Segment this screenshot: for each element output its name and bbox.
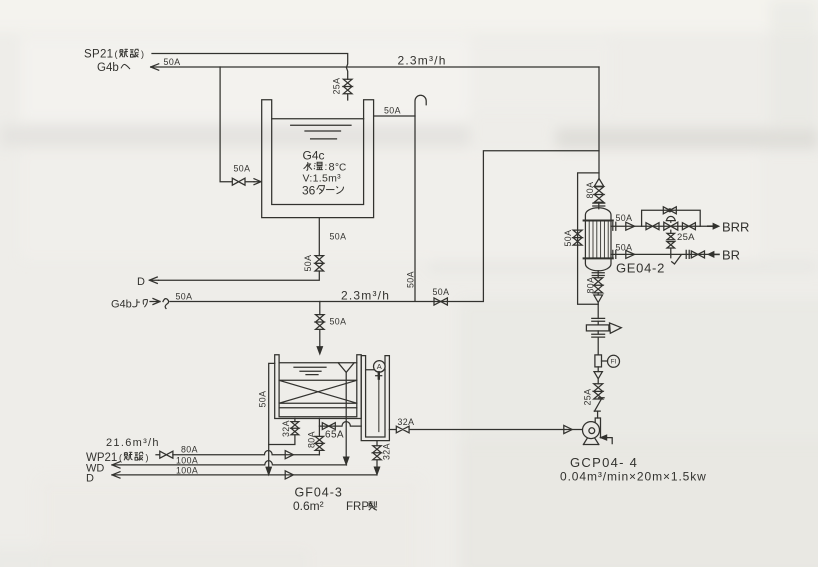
svg-text:32A: 32A <box>382 443 392 460</box>
svg-text:50A: 50A <box>330 232 347 242</box>
svg-text:36: 36 <box>302 184 316 198</box>
svg-text:(: ( <box>115 49 118 59</box>
svg-text:BRR: BRR <box>722 220 749 235</box>
svg-text:50A: 50A <box>616 242 633 252</box>
svg-text:50A: 50A <box>433 287 450 297</box>
svg-text:32A: 32A <box>398 417 415 427</box>
svg-text:SP21: SP21 <box>84 49 113 61</box>
svg-text:A: A <box>377 362 382 371</box>
svg-text:100A: 100A <box>176 466 198 476</box>
svg-text:50A: 50A <box>616 213 633 223</box>
svg-text:21.6m³/h: 21.6m³/h <box>106 437 160 449</box>
svg-text:50A: 50A <box>303 255 313 272</box>
svg-text:D: D <box>137 276 145 288</box>
svg-text:D: D <box>86 473 94 485</box>
svg-text:G4b: G4b <box>111 299 132 311</box>
svg-text:65A: 65A <box>325 430 344 441</box>
svg-text:50A: 50A <box>234 164 251 174</box>
svg-text:2.3m³/h: 2.3m³/h <box>398 54 447 68</box>
svg-text:80A: 80A <box>307 431 317 448</box>
svg-text:G4b: G4b <box>97 62 119 74</box>
svg-text:50A: 50A <box>563 230 573 247</box>
svg-text:50A: 50A <box>176 292 193 302</box>
svg-text:50A: 50A <box>258 391 268 408</box>
svg-text:): ) <box>146 453 149 463</box>
svg-text:0.6m²: 0.6m² <box>293 499 324 513</box>
svg-text:G4c: G4c <box>303 149 325 163</box>
svg-text:FRP: FRP <box>346 501 369 513</box>
svg-text:25A: 25A <box>677 232 695 243</box>
svg-text:80A: 80A <box>586 277 596 294</box>
svg-text:32A: 32A <box>281 420 291 437</box>
svg-text:): ) <box>141 49 144 59</box>
svg-text:GF04-3: GF04-3 <box>295 486 343 500</box>
svg-text:2.3m³/h: 2.3m³/h <box>341 289 390 303</box>
svg-text:100A: 100A <box>176 456 198 466</box>
svg-text:50A: 50A <box>384 106 401 116</box>
svg-text:80A: 80A <box>181 445 198 455</box>
svg-text:(: ( <box>119 453 122 463</box>
svg-text:FI: FI <box>611 359 617 366</box>
svg-text:GCP04- 4: GCP04- 4 <box>570 455 638 470</box>
svg-text::: : <box>325 162 328 173</box>
svg-text:50A: 50A <box>164 57 181 67</box>
svg-text:GE04-2: GE04-2 <box>616 261 665 276</box>
svg-text:25A: 25A <box>332 78 342 95</box>
svg-text:50A: 50A <box>406 271 416 288</box>
svg-text:0.04m³/min×20m×1.5kw: 0.04m³/min×20m×1.5kw <box>560 470 707 484</box>
svg-text:25A: 25A <box>583 389 593 406</box>
svg-text:BR: BR <box>722 248 740 263</box>
svg-text:80A: 80A <box>585 182 595 199</box>
svg-text:50A: 50A <box>330 317 347 327</box>
